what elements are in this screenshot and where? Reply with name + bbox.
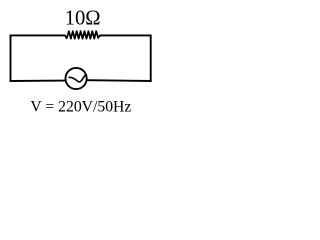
wire left side — [10, 35, 12, 82]
wire right side — [150, 35, 152, 82]
AC source V1 circle — [66, 68, 87, 89]
svg-text:V = 220V/50Hz: V = 220V/50Hz — [30, 99, 131, 116]
resistor R 10Ω (zigzag) — [64, 31, 101, 39]
svg-text:10Ω: 10Ω — [65, 7, 101, 29]
wire bottom-left segment — [10, 80, 65, 82]
wire top-left segment — [11, 34, 64, 36]
wire top-right segment — [100, 34, 151, 36]
wire bottom-right segment — [87, 79, 151, 82]
AC source V1 sine symbol — [69, 74, 86, 82]
